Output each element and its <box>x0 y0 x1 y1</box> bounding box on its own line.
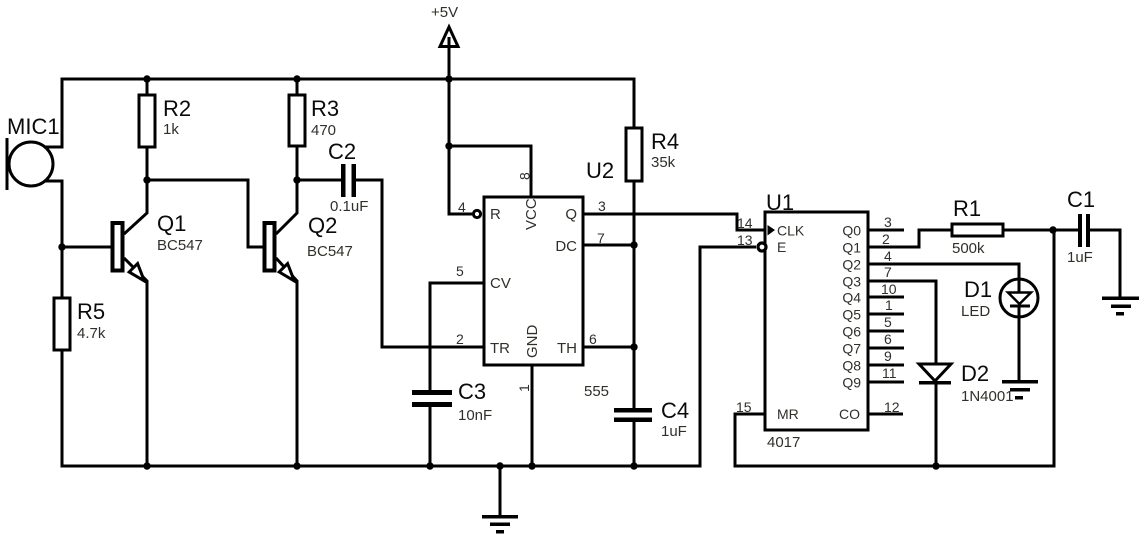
svg-text:D2: D2 <box>961 361 989 386</box>
svg-text:5: 5 <box>884 314 892 330</box>
svg-text:Q8: Q8 <box>842 358 861 374</box>
svg-text:5: 5 <box>456 263 464 279</box>
svg-text:Q1: Q1 <box>157 211 186 236</box>
svg-text:6: 6 <box>589 331 597 347</box>
svg-text:0.1uF: 0.1uF <box>330 198 368 215</box>
svg-text:BC547: BC547 <box>157 237 203 254</box>
svg-text:7: 7 <box>597 230 605 246</box>
svg-text:15: 15 <box>736 399 752 415</box>
svg-text:10: 10 <box>881 281 897 297</box>
svg-text:Q0: Q0 <box>842 223 861 239</box>
svg-text:1k: 1k <box>163 121 179 138</box>
svg-text:1: 1 <box>516 384 532 392</box>
svg-text:10nF: 10nF <box>458 407 492 424</box>
svg-text:6: 6 <box>884 331 892 347</box>
svg-text:R: R <box>490 206 501 223</box>
svg-text:12: 12 <box>884 399 900 415</box>
svg-text:U2: U2 <box>586 158 614 183</box>
svg-text:35k: 35k <box>651 154 676 171</box>
svg-text:E: E <box>777 239 786 255</box>
svg-text:R1: R1 <box>953 196 981 221</box>
svg-text:Q5: Q5 <box>842 307 861 323</box>
svg-text:R5: R5 <box>77 299 105 324</box>
svg-text:4: 4 <box>884 248 892 264</box>
svg-text:11: 11 <box>882 365 897 381</box>
svg-text:8: 8 <box>517 172 533 180</box>
svg-text:C2: C2 <box>328 139 356 164</box>
svg-text:C1: C1 <box>1067 187 1095 212</box>
svg-text:LED: LED <box>961 303 990 320</box>
svg-text:555: 555 <box>584 383 609 400</box>
svg-text:Q4: Q4 <box>842 290 861 306</box>
svg-text:R3: R3 <box>311 96 339 121</box>
svg-text:500k: 500k <box>952 240 985 257</box>
svg-text:3: 3 <box>884 214 892 230</box>
svg-text:VCC: VCC <box>523 198 540 230</box>
svg-text:BC547: BC547 <box>307 243 353 260</box>
svg-text:Q9: Q9 <box>842 375 861 391</box>
svg-text:470: 470 <box>311 122 336 139</box>
svg-text:C3: C3 <box>458 379 486 404</box>
svg-text:MIC1: MIC1 <box>7 114 60 139</box>
svg-text:3: 3 <box>598 198 606 214</box>
svg-text:2: 2 <box>456 331 464 347</box>
svg-text:2: 2 <box>882 231 890 247</box>
svg-text:Q: Q <box>565 206 577 223</box>
svg-text:R2: R2 <box>163 96 191 121</box>
svg-text:1N4001: 1N4001 <box>961 388 1014 405</box>
svg-text:Q1: Q1 <box>842 240 861 256</box>
svg-text:Q3: Q3 <box>842 274 861 290</box>
svg-text:CLK: CLK <box>777 223 805 239</box>
svg-text:CV: CV <box>490 275 511 292</box>
svg-text:Q2: Q2 <box>308 213 337 238</box>
svg-text:Q7: Q7 <box>842 341 861 357</box>
svg-text:Q6: Q6 <box>842 324 861 340</box>
svg-text:4: 4 <box>458 199 466 215</box>
svg-text:9: 9 <box>884 348 892 364</box>
svg-text:R4: R4 <box>651 129 679 154</box>
svg-text:GND: GND <box>524 325 541 359</box>
svg-text:1uF: 1uF <box>1067 249 1093 266</box>
svg-text:4.7k: 4.7k <box>77 325 106 342</box>
svg-text:D1: D1 <box>964 277 992 302</box>
svg-text:7: 7 <box>884 264 892 280</box>
svg-text:MR: MR <box>777 406 799 422</box>
svg-text:CO: CO <box>839 406 860 422</box>
svg-text:14: 14 <box>737 215 753 231</box>
svg-text:13: 13 <box>737 232 753 248</box>
svg-text:1: 1 <box>885 297 893 313</box>
svg-text:+5V: +5V <box>431 4 458 21</box>
svg-text:1uF: 1uF <box>661 423 687 440</box>
svg-text:C4: C4 <box>661 398 689 423</box>
svg-text:Q2: Q2 <box>842 257 861 273</box>
svg-text:4017: 4017 <box>767 434 800 451</box>
svg-text:U1: U1 <box>766 190 794 215</box>
svg-text:DC: DC <box>555 238 577 255</box>
svg-text:TR: TR <box>490 340 510 357</box>
svg-text:TH: TH <box>557 340 577 357</box>
